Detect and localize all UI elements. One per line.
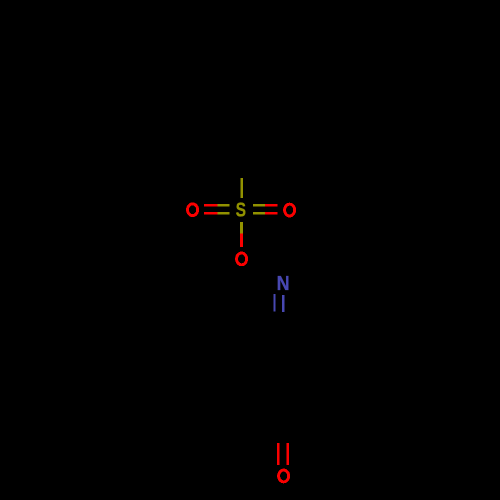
- svg-text:N: N: [277, 273, 290, 295]
- svg-text:S: S: [236, 200, 246, 222]
- bond S-CH3 (sulfur half, methyl carbon half invisible): [241, 178, 244, 198]
- atom O (left sulfonyl oxygen): [188, 204, 198, 216]
- bond C=O ketone double bond (oxygen half, ring carbon half invisible): [277, 443, 289, 465]
- atom S (sulfonyl sulfur): [236, 200, 246, 222]
- atom O (ester oxygen): [237, 253, 247, 265]
- atom N (oxime nitrogen): [277, 273, 290, 295]
- bond S-O ester single bond: [240, 222, 243, 247]
- bond S=O left double bond: [204, 204, 230, 215]
- atom O (right sulfonyl oxygen): [285, 204, 295, 216]
- bond S=O right double bond: [253, 204, 277, 215]
- bond C=N double bond (nitrogen half, ring carbon half invisible): [273, 294, 284, 312]
- atom O (ketone oxygen): [279, 470, 289, 482]
